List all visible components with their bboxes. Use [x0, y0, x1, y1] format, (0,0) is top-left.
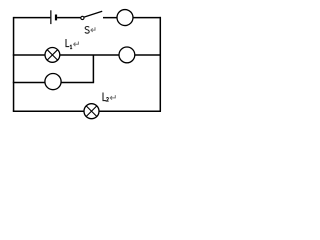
label L1: [66, 39, 69, 47]
meter circle top: [117, 10, 133, 26]
wire: vertical dropper row2-row3: [92, 55, 94, 82]
wire: bottom horizontal: [13, 110, 161, 112]
return mark after L2: [110, 95, 115, 100]
lamp L1: [45, 48, 60, 63]
label L2 subscript 2: [106, 97, 108, 101]
switch S pivot: [81, 16, 84, 19]
battery long plate: [50, 10, 52, 24]
label L2: [103, 93, 106, 101]
battery short plate: [55, 15, 57, 21]
switch S blade: [84, 11, 102, 17]
return mark after S: [91, 27, 95, 32]
meter circle row3: [45, 74, 61, 90]
wire: top meter to top-right corner: [132, 17, 161, 19]
lamp L2: [84, 104, 99, 119]
label L1 subscript 1: [70, 45, 72, 49]
wire: top-left to battery: [14, 17, 51, 19]
wire: right vertical: [159, 17, 161, 111]
wire: battery to switch: [57, 17, 81, 19]
label S: [85, 27, 89, 34]
wire: row2 horizontal: [13, 54, 161, 56]
wire: switch to top meter: [103, 17, 118, 19]
meter circle row2 right: [119, 47, 135, 63]
wire: left vertical: [13, 17, 15, 111]
wire: row3 horizontal: [13, 81, 94, 83]
return mark after L1: [74, 42, 79, 47]
